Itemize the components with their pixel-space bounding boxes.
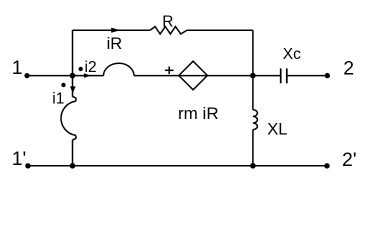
svg-text:Xc: Xc — [283, 46, 301, 63]
svg-text:XL: XL — [267, 120, 287, 138]
svg-text:R: R — [162, 13, 173, 30]
svg-text:1': 1' — [12, 148, 27, 170]
svg-text:2: 2 — [343, 58, 354, 80]
svg-text:iR: iR — [107, 35, 123, 53]
svg-text:1: 1 — [12, 57, 23, 79]
svg-text:rm iR: rm iR — [178, 104, 219, 123]
svg-text:2': 2' — [342, 149, 357, 171]
svg-text:i1: i1 — [52, 91, 64, 108]
svg-text:i2: i2 — [85, 59, 97, 76]
